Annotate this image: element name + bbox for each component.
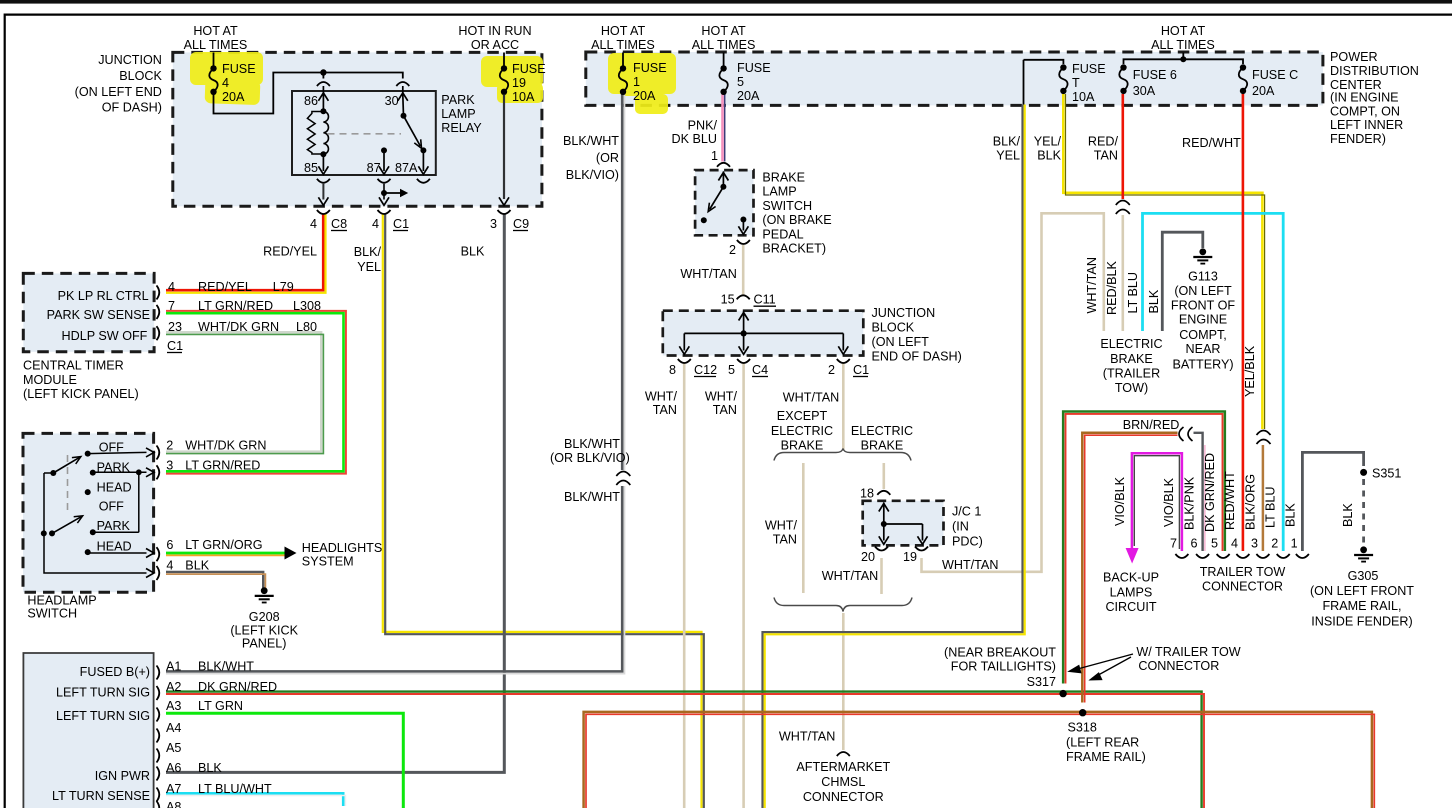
svg-text:RED/YEL: RED/YEL [198, 280, 252, 294]
svg-text:87A: 87A [395, 161, 418, 175]
svg-text:WHT/: WHT/ [765, 519, 798, 533]
svg-text:DK BLU: DK BLU [672, 132, 718, 146]
svg-text:TAN: TAN [653, 403, 677, 417]
svg-text:6: 6 [166, 538, 173, 552]
svg-text:WHT/TAN: WHT/TAN [783, 390, 839, 404]
svg-text:HOT AT: HOT AT [193, 24, 238, 38]
svg-text:COMPT,: COMPT, [1179, 328, 1227, 342]
svg-text:L308: L308 [293, 299, 321, 313]
relay pin 86 entry (bump, arrow) [317, 82, 330, 86]
svg-text:ELECTRIC: ELECTRIC [771, 424, 833, 438]
relay coil between pins 86 and 85 [320, 108, 326, 114]
svg-text:5: 5 [728, 363, 735, 377]
svg-text:HEAD: HEAD [97, 481, 132, 495]
svg-text:A1: A1 [166, 660, 181, 674]
svg-text:RED/: RED/ [1088, 135, 1119, 149]
wire BLK/YEL from relay pin 87 / C1 down and across to bottom [383, 214, 702, 808]
wire WHT/TAN from J/C1 pin 20 to lower brace [880, 558, 883, 594]
svg-text:J/C 1: J/C 1 [952, 505, 981, 519]
svg-text:3: 3 [1251, 537, 1258, 551]
brake lamp switch pin 1 bump [717, 163, 730, 167]
svg-text:BLK/VIO): BLK/VIO) [566, 168, 619, 182]
wire BLK dashed from S351 to ground G305 [1362, 479, 1365, 546]
svg-text:4: 4 [166, 559, 173, 573]
svg-text:WHT/TAN: WHT/TAN [1085, 257, 1099, 313]
svg-text:4: 4 [372, 217, 379, 231]
svg-text:C1: C1 [167, 339, 183, 353]
wire WHT/TAN from junction block pin 5 C4 to bottom edge [742, 363, 745, 808]
fuse 6 30A [1120, 64, 1126, 70]
svg-text:5: 5 [1211, 537, 1218, 551]
svg-text:TRAILER TOW: TRAILER TOW [1200, 565, 1286, 579]
svg-text:FRAME RAIL): FRAME RAIL) [1066, 750, 1146, 764]
wire from fuse 19 to connector C9 [503, 95, 505, 200]
wire LT GRN from connector pin A3 down at x=403 to bottom [166, 713, 403, 808]
svg-text:BLOCK: BLOCK [119, 69, 162, 83]
junction block pin 5 C4 bump [737, 359, 750, 363]
svg-text:1: 1 [711, 149, 718, 163]
J/C 1 (in PDC) box [863, 501, 944, 546]
svg-text:TAN: TAN [713, 403, 737, 417]
svg-text:PARK: PARK [97, 460, 131, 474]
yellow highlighter on fuse 1 [608, 53, 676, 114]
svg-text:(NEAR BREAKOUT: (NEAR BREAKOUT [944, 645, 1056, 659]
svg-text:S318: S318 [1068, 721, 1097, 735]
aftermarket CHMSL connector bump [837, 752, 850, 756]
svg-text:LT BLU/WHT: LT BLU/WHT [198, 782, 272, 796]
svg-text:C4: C4 [752, 363, 768, 377]
svg-text:BRAKE: BRAKE [861, 439, 904, 453]
svg-text:PNK/: PNK/ [688, 119, 718, 133]
svg-text:PARK SW SENSE: PARK SW SENSE [47, 308, 150, 322]
wire BLK from fuse 19 / C9 down, across to connector pin A6 [166, 214, 504, 773]
wire BRN/RED branch from S318 up to break toward trailer tow pin 6 [1082, 433, 1178, 703]
wire BLK from electric brake connector to ground G113 [1162, 232, 1203, 331]
svg-text:23: 23 [168, 320, 182, 334]
trailer tow connector pin bumps [1175, 554, 1188, 558]
svg-text:C1: C1 [393, 217, 409, 231]
svg-text:WHT/TAN: WHT/TAN [942, 558, 998, 572]
svg-text:WHT/DK GRN: WHT/DK GRN [198, 320, 279, 334]
svg-text:G305: G305 [1348, 569, 1379, 583]
relay contact 87A [420, 147, 426, 153]
wire RED/TAN from fuse 6 down to break [1122, 94, 1125, 202]
svg-text:FRAME RAIL,: FRAME RAIL, [1322, 599, 1401, 613]
connector pin 4 C1 [378, 210, 391, 214]
junction block pin 8 C12 bump [678, 359, 691, 363]
svg-text:(ON BRAKE: (ON BRAKE [762, 213, 831, 227]
wire WHT/TAN branch (electric brake) from brace to J/C1 pin 18 [882, 463, 885, 489]
svg-text:(ON LEFT END: (ON LEFT END [75, 85, 162, 99]
svg-text:(ON LEFT: (ON LEFT [872, 335, 930, 349]
svg-text:19: 19 [903, 550, 917, 564]
wire BLK/YEL from PDC (left of fuse T) down and across to bottom [1023, 60, 1025, 105]
svg-text:BLK: BLK [1341, 503, 1355, 527]
connector A pin brackets [157, 666, 160, 680]
svg-text:A2: A2 [166, 680, 181, 694]
svg-text:(OR BLK/VIO): (OR BLK/VIO) [550, 451, 630, 465]
svg-text:SWITCH: SWITCH [27, 606, 77, 620]
svg-text:A6: A6 [166, 761, 181, 775]
svg-text:(IN: (IN [952, 520, 969, 534]
J/C1 internal distribution [883, 503, 885, 525]
svg-text:LT GRN: LT GRN [198, 699, 243, 713]
svg-text:PK LP RL CTRL: PK LP RL CTRL [58, 289, 149, 303]
svg-text:87: 87 [367, 161, 381, 175]
power distribution center box (top strip) [586, 52, 1323, 105]
svg-text:PANEL): PANEL) [242, 637, 287, 651]
svg-text:OF DASH): OF DASH) [102, 101, 162, 115]
svg-text:30A: 30A [1133, 84, 1156, 98]
svg-text:RED/WHT: RED/WHT [1223, 471, 1237, 530]
lower brace gathering branches to CHMSL wire [774, 598, 912, 612]
svg-text:YEL: YEL [357, 260, 381, 274]
wire WHT/TAN from brake lamp switch pin 2 to junction block C11 [742, 245, 745, 295]
arrow pointing right from pin 87 wire (feed to other circuits) [384, 192, 401, 194]
svg-text:A8: A8 [166, 800, 181, 808]
wire DK GRN/RED from connector pin A2 across to S317 and down at right [166, 692, 1202, 808]
svg-text:BACK-UP: BACK-UP [1103, 571, 1159, 585]
svg-text:HOT AT: HOT AT [601, 24, 646, 38]
svg-text:85: 85 [304, 161, 318, 175]
junction block pin 15 C11 bump [737, 295, 750, 299]
ground G305 symbol [1360, 546, 1367, 553]
wire WHT/TAN from lower brace to aftermarket CHMSL connector [842, 613, 845, 750]
svg-text:WHT/TAN: WHT/TAN [822, 569, 878, 583]
junction block (top-left, on left end of dash) box [173, 52, 542, 206]
svg-text:PARK: PARK [97, 519, 131, 533]
break symbol in RED/TAN to RED/BLK wire [1119, 199, 1127, 215]
svg-text:L79: L79 [273, 280, 294, 294]
svg-text:A5: A5 [166, 741, 181, 755]
C9 exit arrow [499, 197, 509, 205]
wire BLK/ORG from break down to trailer tow pin 3 [1262, 444, 1265, 551]
relay pin 85 wire to C8 [322, 154, 324, 171]
wire RED/YEL from relay pin 85 / C8 to CTM pin 4 [166, 214, 323, 291]
wire WHT/TAN branch (except electric brake) from brace to lower brace [802, 463, 805, 593]
svg-text:FUSE: FUSE [1072, 62, 1106, 76]
svg-text:SWITCH: SWITCH [762, 199, 812, 213]
svg-text:FUSE C: FUSE C [1252, 68, 1298, 82]
svg-text:10A: 10A [1072, 90, 1095, 104]
wire LT GRN/ORG from headlamp switch pin 6 to headlights system arrow [166, 552, 285, 555]
svg-text:INSIDE FENDER): INSIDE FENDER) [1311, 614, 1412, 628]
svg-text:LT BLU: LT BLU [1126, 272, 1140, 314]
svg-text:BLK/: BLK/ [993, 135, 1021, 149]
J/C1 pin 20 bump [875, 547, 888, 551]
wire WHT/DK GRN from CTM pin 23 to headlamp switch pin 2 [166, 332, 321, 451]
svg-text:YEL/BLK: YEL/BLK [1243, 345, 1257, 397]
svg-text:BRAKE: BRAKE [1110, 352, 1153, 366]
junction block pin 2 C1 bump [837, 359, 850, 363]
svg-text:(IN ENGINE: (IN ENGINE [1330, 91, 1399, 105]
wire RED/WHT from fuse C down to trailer tow pin 4 [1242, 94, 1245, 551]
svg-text:BRAKE: BRAKE [762, 171, 805, 185]
fuse C 20A [1240, 64, 1246, 70]
svg-text:POWER: POWER [1330, 50, 1378, 64]
svg-text:3: 3 [490, 217, 497, 231]
wire LT GRN/RED from CTM pin 7 to headlamp switch pin 3 [166, 311, 346, 474]
svg-text:TOW): TOW) [1115, 381, 1148, 395]
wire WHT/TAN from J/C1 pin 19 up to electric brake connector [922, 213, 1104, 572]
relay pin 30 entry (bump, arrow) [396, 82, 409, 86]
svg-text:DK GRN/RED: DK GRN/RED [198, 680, 277, 694]
svg-text:FUSE: FUSE [512, 62, 546, 76]
svg-text:FRONT OF: FRONT OF [1171, 299, 1235, 313]
fuse 4 20A with feed stub [213, 53, 215, 66]
svg-text:PDC): PDC) [952, 535, 983, 549]
J/C1 pin 19 bump [915, 547, 928, 551]
svg-text:S351: S351 [1372, 467, 1401, 481]
svg-text:OFF: OFF [99, 500, 124, 514]
svg-text:BLK/WHT: BLK/WHT [563, 134, 619, 148]
brake lamp switch internals [722, 172, 724, 187]
svg-text:LAMP: LAMP [441, 107, 475, 121]
junction block internal distribution [743, 312, 745, 334]
svg-text:C11: C11 [754, 293, 776, 307]
svg-text:YEL: YEL [996, 148, 1020, 162]
svg-text:L80: L80 [296, 320, 317, 334]
svg-text:LEFT TURN SIG: LEFT TURN SIG [56, 709, 150, 723]
svg-text:LEFT INNER: LEFT INNER [1330, 118, 1403, 132]
svg-text:G208: G208 [249, 610, 280, 624]
svg-text:BLK: BLK [461, 245, 485, 259]
svg-text:C9: C9 [513, 217, 529, 231]
svg-text:BLK/WHT: BLK/WHT [198, 660, 254, 674]
ground G113 symbol [1199, 248, 1206, 255]
svg-text:HEADLAMP: HEADLAMP [27, 593, 96, 607]
yellow highlighter on fuse 4 [190, 52, 263, 105]
svg-text:20A: 20A [222, 90, 245, 104]
svg-text:RED/WHT: RED/WHT [1182, 136, 1241, 150]
svg-text:G113: G113 [1188, 269, 1218, 283]
park lamp relay box [292, 91, 436, 175]
svg-text:JUNCTION: JUNCTION [872, 306, 936, 320]
svg-text:MODULE: MODULE [23, 373, 77, 387]
fuse 19 10A with feed stub [503, 53, 505, 66]
page top black bar [0, 0, 1452, 4]
left-rear lamp connector box (A1-A8) [23, 653, 153, 808]
svg-text:4: 4 [168, 280, 175, 294]
svg-text:WHT/DK GRN: WHT/DK GRN [185, 438, 266, 452]
brake lamp switch pin 2 bump [737, 240, 750, 244]
svg-text:(LEFT KICK PANEL): (LEFT KICK PANEL) [23, 387, 139, 401]
wire DK GRN/RED branch from S317 up and over to trailer tow pin 5 [1063, 412, 1225, 684]
svg-text:WHT/: WHT/ [645, 389, 678, 403]
svg-text:ALL TIMES: ALL TIMES [184, 38, 248, 52]
svg-text:(ON LEFT FRONT: (ON LEFT FRONT [1310, 584, 1414, 598]
svg-text:20: 20 [861, 550, 875, 564]
svg-text:CONNECTOR: CONNECTOR [803, 790, 884, 804]
svg-text:A7: A7 [166, 782, 181, 796]
relay contact 87 with wire to C1 [381, 147, 387, 153]
fuse 5 20A with feed stub [723, 53, 725, 66]
wire YEL/BLK from fuse T across to trailer tow pin 3 drop [1063, 94, 1262, 430]
svg-text:LT GRN/ORG: LT GRN/ORG [185, 538, 262, 552]
svg-text:7: 7 [168, 299, 175, 313]
svg-text:BLK/PNK: BLK/PNK [1183, 476, 1197, 530]
break symbol in BRN/RED to BLK/PNK wire [1178, 430, 1194, 438]
svg-text:BLK: BLK [185, 559, 209, 573]
svg-text:3: 3 [166, 459, 173, 473]
splice dot S317 [1059, 690, 1066, 697]
splice dot S318 [1079, 709, 1086, 716]
brake lamp switch box [695, 170, 753, 235]
svg-text:ENGINE: ENGINE [1179, 313, 1227, 327]
svg-text:END OF DASH): END OF DASH) [872, 350, 962, 364]
splice dot S351 [1360, 469, 1367, 476]
wire BLK from headlamp switch pin 4 to ground G208 [166, 572, 263, 588]
headlamp switch internals [50, 470, 56, 476]
svg-text:ALL TIMES: ALL TIMES [591, 38, 655, 52]
svg-text:BLK: BLK [1284, 503, 1298, 527]
svg-text:C12: C12 [694, 363, 717, 377]
svg-text:86: 86 [304, 94, 318, 108]
svg-text:A3: A3 [166, 699, 181, 713]
svg-text:CONNECTOR: CONNECTOR [1138, 659, 1219, 673]
svg-text:15: 15 [721, 293, 735, 307]
svg-text:HEADLIGHTS: HEADLIGHTS [302, 541, 382, 555]
relay switch arm from pin 30 [401, 113, 407, 119]
svg-text:2: 2 [1271, 537, 1278, 551]
svg-text:BLK: BLK [198, 761, 222, 775]
svg-text:NEAR: NEAR [1186, 342, 1221, 356]
svg-text:C1: C1 [853, 363, 869, 377]
svg-text:LT BLU: LT BLU [1264, 486, 1278, 528]
svg-text:LT GRN/RED: LT GRN/RED [198, 299, 273, 313]
svg-text:BLOCK: BLOCK [872, 321, 915, 335]
wire BLK/WHT from fuse 1 down to connector pin A1 [166, 95, 622, 672]
wire LT BLU/WHT from connector pin A7 down to bottom [166, 793, 343, 806]
svg-text:(ON LEFT: (ON LEFT [1174, 284, 1232, 298]
wire WHT/TAN from junction block pin 8 C12 to bottom edge [683, 363, 686, 808]
svg-text:BLK: BLK [1037, 148, 1061, 162]
junction block (middle) box [663, 311, 864, 356]
svg-text:A4: A4 [166, 721, 181, 735]
svg-text:4: 4 [1231, 537, 1238, 551]
svg-text:OR ACC: OR ACC [471, 38, 519, 52]
svg-text:BRACKET): BRACKET) [762, 242, 826, 256]
svg-text:FUSE: FUSE [633, 61, 667, 75]
ground G208 symbol [261, 587, 268, 594]
svg-text:FUSE 6: FUSE 6 [1133, 68, 1177, 82]
svg-text:PARK: PARK [441, 93, 475, 107]
svg-text:2: 2 [729, 243, 736, 257]
svg-text:LT GRN/RED: LT GRN/RED [185, 459, 260, 473]
svg-text:VIO/BLK: VIO/BLK [1162, 477, 1176, 527]
svg-text:4: 4 [222, 76, 229, 90]
wire VIO/BLK from back-up lamps arrow over to trailer tow pin 7 [1132, 453, 1182, 551]
wire RED/BLK from break down to electric brake connector [1122, 213, 1125, 331]
svg-text:TAN: TAN [1094, 148, 1118, 162]
CTM pin brackets [157, 285, 160, 299]
svg-text:1: 1 [633, 75, 640, 89]
svg-text:YEL/: YEL/ [1034, 135, 1062, 149]
svg-text:RELAY: RELAY [441, 121, 482, 135]
svg-text:1: 1 [1291, 537, 1298, 551]
wire BLK from trailer tow pin 1 up and over to S351 [1302, 452, 1363, 551]
svg-text:FUSED B(+): FUSED B(+) [80, 665, 150, 679]
brace joining except/electric brake branches [774, 449, 911, 461]
svg-text:PEDAL: PEDAL [762, 227, 803, 241]
svg-text:LEFT TURN SIG: LEFT TURN SIG [56, 686, 150, 700]
headlamp switch mechanical link (dashed) [67, 455, 69, 513]
wire BLK/PNK from break down to trailer tow pin 6 [1193, 433, 1203, 551]
svg-text:20A: 20A [737, 89, 760, 103]
svg-text:T: T [1072, 76, 1080, 90]
svg-text:ALL TIMES: ALL TIMES [1151, 38, 1215, 52]
connector pin 3 C9 [498, 210, 511, 214]
junction dot above relay pin 86 [320, 69, 326, 75]
svg-text:HDLP SW OFF: HDLP SW OFF [62, 329, 148, 343]
svg-text:8: 8 [669, 363, 676, 377]
svg-text:(LEFT KICK: (LEFT KICK [230, 623, 298, 637]
wire from fuse 4 to relay pins 86 and 30 [214, 73, 403, 114]
svg-text:EXCEPT: EXCEPT [777, 409, 828, 423]
svg-text:DK GRN/RED: DK GRN/RED [1203, 453, 1217, 532]
svg-text:BLK/ORG: BLK/ORG [1244, 474, 1258, 530]
fuse T 10A with feed rail from BLK/YEL [1024, 60, 1064, 64]
svg-text:CENTRAL TIMER: CENTRAL TIMER [23, 359, 124, 373]
wire WHT/TAN from junction block pin 2 C1 to brace [842, 363, 845, 450]
svg-text:(TRAILER: (TRAILER [1103, 367, 1160, 381]
svg-text:CONNECTOR: CONNECTOR [1202, 579, 1283, 593]
svg-text:BATTERY): BATTERY) [1172, 357, 1233, 371]
svg-text:W/ TRAILER TOW: W/ TRAILER TOW [1136, 645, 1240, 659]
svg-text:FOR TAILLIGHTS): FOR TAILLIGHTS) [951, 659, 1056, 673]
svg-text:2: 2 [828, 363, 835, 377]
arrows pointing to S317/S318 splice wires (w/ trailer tow) [1071, 654, 1133, 671]
svg-text:6: 6 [1190, 537, 1197, 551]
wire BRN/RED from bottom up across S318 to right drop [584, 712, 1372, 808]
svg-text:LAMP: LAMP [762, 185, 796, 199]
wire PNK/DK BLU from fuse 5 to brake lamp switch pin 1 [721, 95, 724, 162]
svg-text:RED/BLK: RED/BLK [1105, 261, 1119, 315]
yellow highlighter on fuse 19 [481, 56, 543, 103]
PDC hot-at-all-times rail feeding fuses 6 and C [1182, 53, 1184, 60]
svg-text:BLK/: BLK/ [354, 245, 382, 259]
svg-text:10A: 10A [512, 90, 535, 104]
svg-text:ALL TIMES: ALL TIMES [692, 38, 756, 52]
svg-text:TAN: TAN [773, 533, 797, 547]
svg-text:(OR: (OR [596, 151, 619, 165]
svg-text:ELECTRIC: ELECTRIC [1100, 337, 1162, 351]
headlamp switch box [23, 433, 154, 592]
svg-text:20A: 20A [633, 89, 656, 103]
headlights system arrow [285, 547, 297, 560]
svg-text:ELECTRIC: ELECTRIC [851, 424, 913, 438]
svg-text:JUNCTION: JUNCTION [98, 53, 162, 67]
back-up lamps circuit arrow (violet) [1126, 548, 1139, 564]
connector pin 4 C8 [317, 210, 330, 214]
svg-text:(LEFT REAR: (LEFT REAR [1066, 736, 1139, 750]
svg-text:5: 5 [737, 75, 744, 89]
svg-text:BRN/RED: BRN/RED [1123, 418, 1180, 432]
svg-text:COMPT, ON: COMPT, ON [1330, 104, 1400, 118]
svg-text:BLK/WHT: BLK/WHT [564, 490, 620, 504]
svg-text:DISTRIBUTION: DISTRIBUTION [1330, 64, 1419, 78]
svg-text:2: 2 [166, 438, 173, 452]
headlamp switch pin brackets [157, 446, 160, 460]
svg-text:IGN PWR: IGN PWR [95, 769, 150, 783]
svg-text:FENDER): FENDER) [1330, 132, 1386, 146]
J/C1 pin 18 bump [877, 491, 890, 495]
svg-text:VIO/BLK: VIO/BLK [1113, 476, 1127, 526]
svg-text:OFF: OFF [99, 441, 124, 455]
svg-text:S317: S317 [1027, 675, 1056, 689]
svg-text:SYSTEM: SYSTEM [302, 555, 354, 569]
svg-text:WHT/: WHT/ [705, 389, 738, 403]
